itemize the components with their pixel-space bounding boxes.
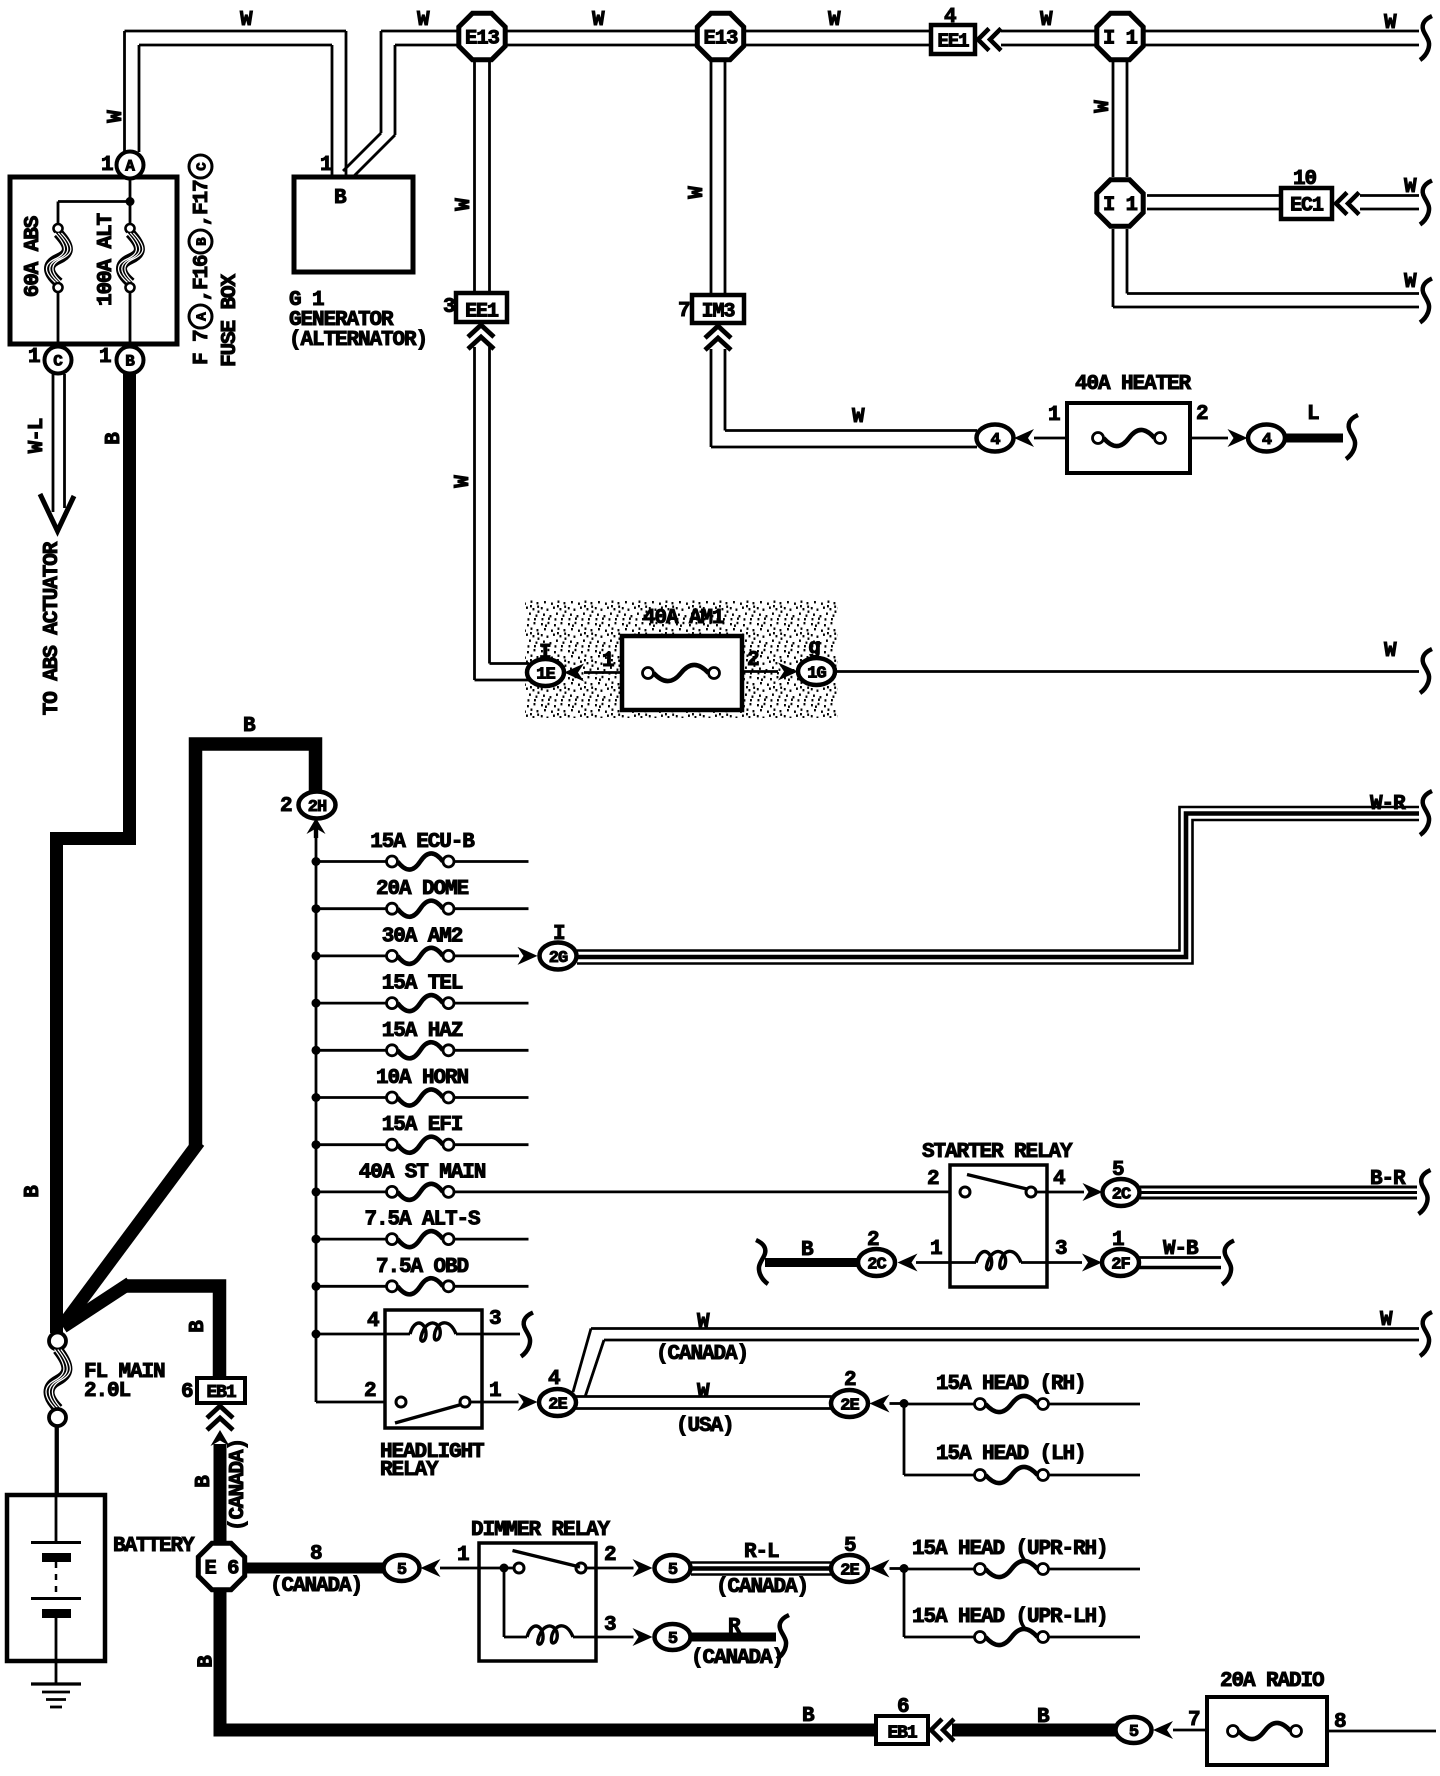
svg-text:A: A [195,312,211,321]
svg-text:F: F [191,203,214,215]
svg-text:W: W [452,475,475,488]
svg-text:B: B [802,1705,815,1728]
svg-text:B: B [243,715,256,738]
svg-text:8: 8 [310,1543,322,1566]
svg-text:2: 2 [844,1369,856,1392]
svg-text:2G: 2G [549,949,568,968]
svg-text:15A HAZ: 15A HAZ [382,1020,463,1043]
svg-text:W: W [852,406,865,429]
svg-text:60A ABS: 60A ABS [22,216,45,297]
svg-text:40A AM1: 40A AM1 [643,607,724,630]
svg-text:I 1: I 1 [1103,28,1138,51]
svg-text:B: B [103,432,126,445]
svg-text:W: W [828,9,841,32]
svg-text:1: 1 [99,346,111,369]
svg-text:2: 2 [867,1229,879,1252]
svg-text:W: W [417,9,430,32]
svg-text:g: g [808,637,820,660]
svg-text:EB1: EB1 [887,1724,917,1744]
svg-text:E 6: E 6 [205,1558,240,1581]
svg-text:B: B [334,187,347,210]
svg-text:I 1: I 1 [1103,194,1138,217]
svg-text:1G: 1G [807,664,826,683]
svg-text:1: 1 [489,1380,501,1403]
svg-text:W: W [1404,176,1417,199]
svg-text:IM3: IM3 [702,301,735,324]
svg-text:2F: 2F [1111,1255,1130,1274]
svg-text:C: C [53,353,63,371]
svg-text:B: B [187,1320,210,1333]
svg-text:W: W [1040,9,1053,32]
svg-text:(CANADA): (CANADA) [270,1575,362,1598]
svg-text:2: 2 [927,1168,939,1191]
svg-text:2: 2 [1196,403,1208,426]
svg-text:7: 7 [1188,1709,1200,1732]
svg-text:30A AM2: 30A AM2 [382,925,463,948]
svg-text:3: 3 [604,1614,616,1637]
svg-text:W-B: W-B [1163,1238,1199,1261]
svg-text:(CANADA): (CANADA) [227,1439,250,1531]
svg-text:RELAY: RELAY [380,1459,439,1482]
svg-text:TO ABS ACTUATOR: TO ABS ACTUATOR [41,541,64,715]
svg-text:5: 5 [397,1561,407,1580]
svg-text:1: 1 [191,192,214,204]
svg-text:2: 2 [604,1544,616,1567]
svg-text:6: 6 [191,255,214,267]
svg-text:2C: 2C [1112,1185,1131,1204]
svg-text:40A ST MAIN: 40A ST MAIN [359,1161,486,1184]
svg-text:6: 6 [897,1696,909,1719]
svg-text:4: 4 [990,431,1000,450]
svg-text:4: 4 [1053,1168,1065,1191]
svg-text:B: B [125,353,135,371]
svg-text:DIMMER RELAY: DIMMER RELAY [471,1519,611,1542]
svg-text:W: W [240,9,253,32]
svg-text:2H: 2H [308,798,327,817]
svg-text:(ALTERNATOR): (ALTERNATOR) [289,329,427,352]
svg-text:1: 1 [457,1544,469,1567]
svg-text:5: 5 [1129,1723,1139,1742]
svg-text:EC1: EC1 [1290,195,1324,218]
svg-text:2: 2 [747,649,759,672]
svg-text:3: 3 [489,1308,501,1331]
svg-text:1: 1 [1112,1229,1124,1252]
svg-text:I: I [539,642,551,665]
svg-text:15A HEAD (UPR-RH): 15A HEAD (UPR-RH) [912,1538,1108,1561]
svg-text:20A DOME: 20A DOME [376,878,469,901]
svg-text:5: 5 [844,1535,856,1558]
svg-text:1: 1 [101,154,113,177]
svg-text:2E: 2E [840,1396,859,1415]
svg-text:8: 8 [1334,1711,1346,1734]
svg-text:2.0L: 2.0L [84,1380,131,1403]
svg-text:,: , [191,215,214,227]
svg-text:W: W [105,110,128,123]
svg-text:5: 5 [668,1630,678,1649]
svg-text:W-R: W-R [1370,793,1406,816]
svg-text:W: W [1384,12,1397,35]
svg-text:7: 7 [191,180,214,192]
svg-text:15A HEAD (UPR-LH): 15A HEAD (UPR-LH) [912,1606,1108,1629]
svg-text:2E: 2E [840,1561,859,1580]
svg-text:I: I [553,923,565,946]
svg-text:3: 3 [443,296,455,319]
svg-text:7: 7 [191,330,214,342]
svg-text:B: B [196,1655,219,1668]
svg-text:4: 4 [548,1368,560,1391]
svg-text:W: W [1092,100,1115,113]
svg-text:2: 2 [364,1380,376,1403]
svg-text:40A HEATER: 40A HEATER [1075,373,1192,396]
svg-text:1: 1 [320,154,332,177]
svg-text:,: , [191,290,214,302]
svg-text:1: 1 [1048,404,1060,427]
svg-text:W: W [592,9,605,32]
svg-text:7: 7 [678,300,690,323]
svg-text:5: 5 [1112,1159,1124,1182]
svg-text:A: A [125,158,135,176]
svg-text:W-L: W-L [26,418,49,453]
svg-text:1: 1 [930,1238,942,1261]
svg-text:B: B [801,1239,814,1262]
svg-text:20A RADIO: 20A RADIO [1220,1670,1324,1693]
svg-text:15A HEAD (LH): 15A HEAD (LH) [936,1443,1086,1466]
svg-text:EE1: EE1 [465,301,499,324]
svg-text:7.5A OBD: 7.5A OBD [376,1256,469,1279]
svg-text:W: W [1380,1309,1393,1332]
svg-text:2E: 2E [548,1395,567,1414]
svg-text:F: F [191,353,214,365]
svg-text:(USA): (USA) [676,1415,734,1438]
svg-text:E13: E13 [465,28,500,51]
svg-text:1: 1 [602,650,614,673]
svg-text:2: 2 [280,795,292,818]
svg-text:B: B [1037,1706,1050,1729]
svg-text:15A EFI: 15A EFI [382,1114,463,1137]
svg-text:BATTERY: BATTERY [113,1535,195,1558]
svg-text:W: W [686,186,709,199]
svg-text:C: C [195,162,211,171]
svg-text:6: 6 [181,1381,193,1404]
svg-text:1E: 1E [536,665,555,684]
svg-text:F: F [191,278,214,290]
svg-text:3: 3 [1055,1238,1067,1261]
svg-text:R: R [728,1616,741,1639]
svg-text:15A ECU-B: 15A ECU-B [370,831,475,854]
svg-text:EE1: EE1 [938,31,970,53]
svg-text:15A TEL: 15A TEL [382,973,463,996]
svg-text:W: W [697,1311,710,1334]
svg-text:FUSE BOX: FUSE BOX [219,274,242,368]
svg-text:B-R: B-R [1370,1168,1406,1191]
svg-text:1: 1 [28,346,40,369]
svg-text:7.5A ALT-S: 7.5A ALT-S [364,1209,480,1232]
svg-text:B: B [193,1475,216,1488]
svg-text:W: W [1384,640,1397,663]
svg-text:10: 10 [1293,168,1317,191]
svg-text:STARTER RELAY: STARTER RELAY [922,1141,1073,1164]
svg-text:10A HORN: 10A HORN [376,1067,469,1090]
svg-text:E13: E13 [704,28,739,51]
svg-text:5: 5 [668,1561,678,1580]
svg-text:1: 1 [191,267,214,279]
svg-text:4: 4 [367,1310,379,1333]
svg-text:(CANADA): (CANADA) [716,1576,808,1599]
svg-text:B: B [195,237,211,246]
svg-text:W: W [697,1381,710,1404]
svg-text:B: B [22,1185,45,1198]
svg-text:(CANADA): (CANADA) [656,1343,748,1366]
svg-text:4: 4 [944,6,956,29]
svg-text:W: W [453,198,476,211]
svg-text:L: L [1307,403,1319,426]
svg-text:100A ALT: 100A ALT [95,214,118,307]
svg-text:(CANADA): (CANADA) [691,1647,783,1670]
svg-text:4: 4 [1262,431,1272,450]
svg-text:2C: 2C [867,1255,886,1274]
svg-text:W: W [1404,271,1417,294]
svg-text:R-L: R-L [744,1541,779,1564]
svg-text:15A HEAD (RH): 15A HEAD (RH) [936,1373,1086,1396]
svg-text:EB1: EB1 [206,1383,236,1403]
